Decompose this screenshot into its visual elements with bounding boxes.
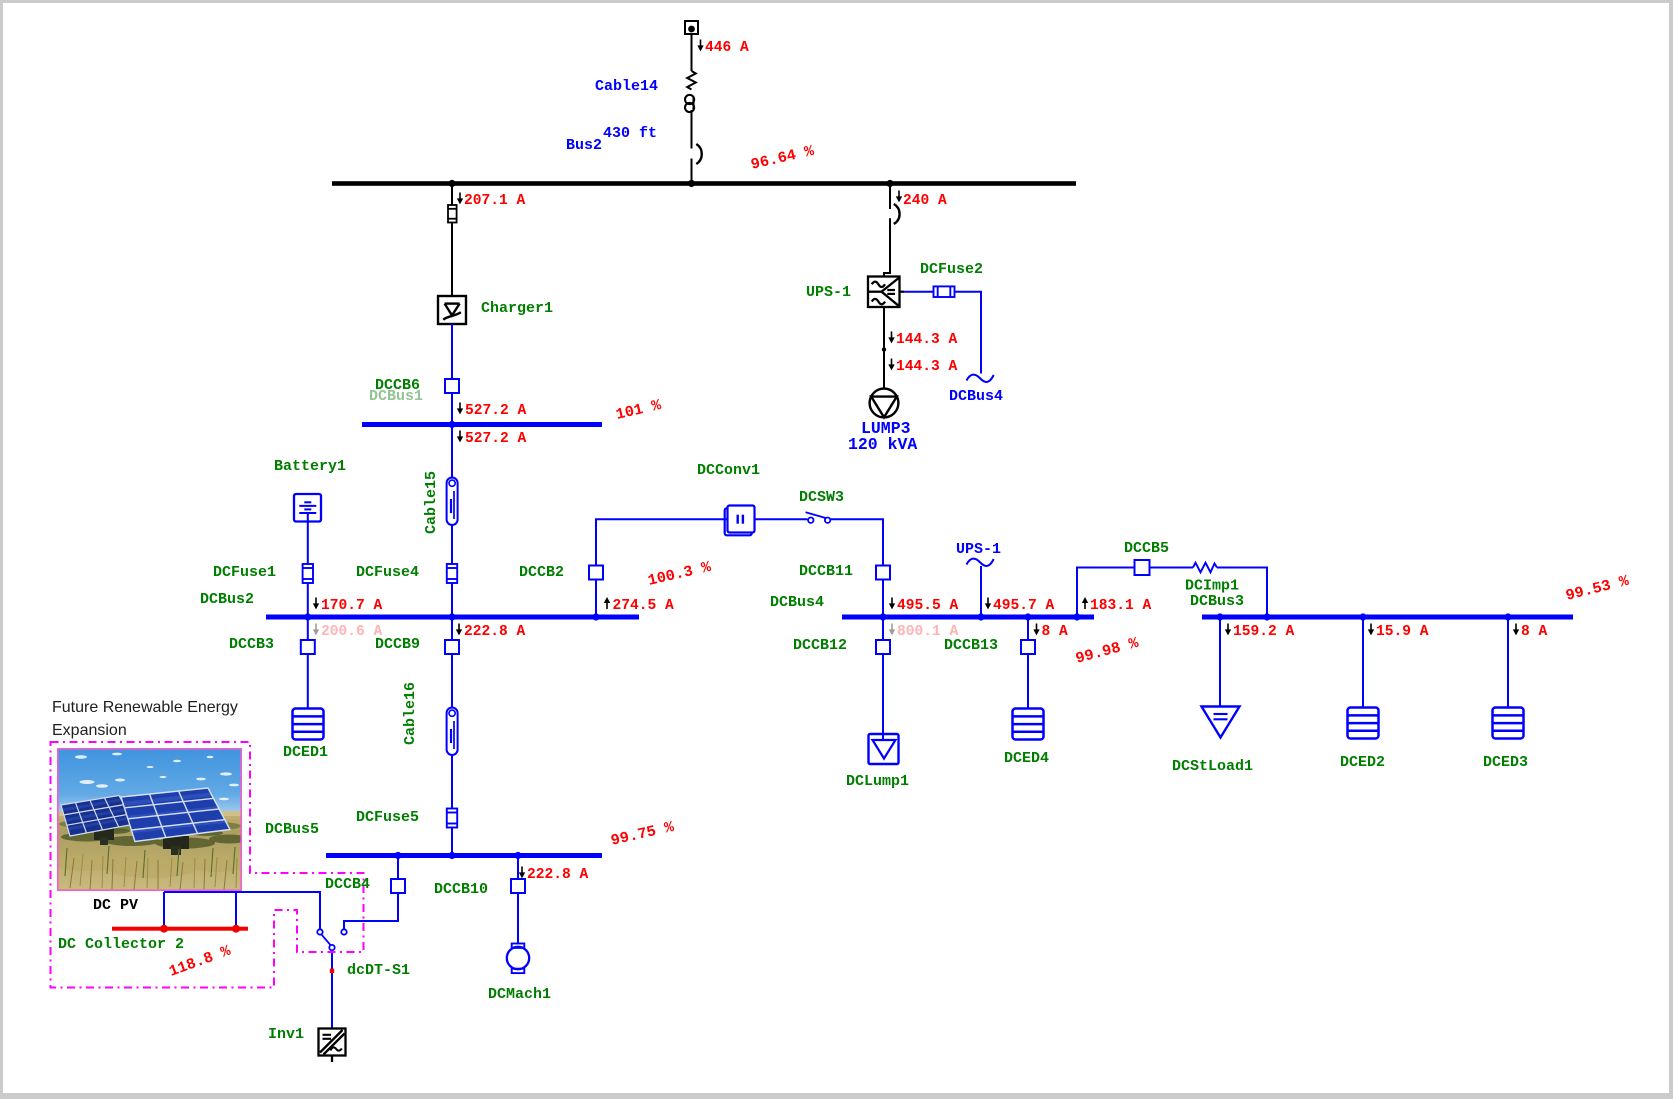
node DC Collector 2 tap2 [232, 925, 240, 933]
svg-text:DCLump1: DCLump1 [846, 773, 909, 790]
breaker DCCB3 [301, 640, 315, 654]
fault marker (red dot) [330, 969, 334, 973]
svg-text:DC PV: DC PV [93, 897, 138, 914]
wire DCBus3 to DCED2 [1362, 620, 1364, 708]
svg-text:Cable14: Cable14 [595, 78, 658, 95]
flow 159.2 A [1225, 624, 1231, 636]
svg-text:495.7 A: 495.7 A [993, 598, 1055, 614]
node DCBus3 at DCED2 [1359, 613, 1366, 620]
fuse DCFuse1 [303, 564, 313, 583]
svg-text:527.2 A: 527.2 A [465, 431, 527, 447]
wire Battery1 to DCFuse1 [307, 513, 309, 564]
node DCBus3 at DCStLoad1 [1216, 613, 1223, 620]
wire Charger1 to DCCB6 [451, 324, 453, 379]
node DCBus4 at DCCB5 riser [1073, 613, 1080, 620]
svg-text:DCStLoad1: DCStLoad1 [1172, 758, 1253, 775]
flow 495.7 A [985, 598, 991, 610]
bus Bus2 [332, 181, 1076, 186]
wire DCConv1 to DCSW3 [755, 518, 808, 520]
wire Cable16 to DCFuse5 [451, 755, 453, 809]
flow 200.6 A [313, 624, 319, 636]
wire Cable15 to DCFuse4 [451, 525, 453, 564]
svg-text:DCBus5: DCBus5 [265, 821, 319, 838]
wire PV to collector tap 1 [163, 892, 165, 927]
breaker DCCB4 [391, 879, 405, 893]
svg-text:UPS-1: UPS-1 [806, 284, 851, 301]
flow 15.9 A [1368, 624, 1374, 636]
PV array photo (DC PV) [53, 748, 252, 891]
load DCLump1 [869, 734, 899, 764]
cable Cable16 [447, 708, 458, 756]
breaker DCCB2 [589, 566, 603, 580]
node on Bus2 at UPS feeder [886, 180, 893, 187]
wire DCBus1 to Cable15 [451, 427, 453, 478]
lumped load LUMP3 [870, 389, 899, 418]
svg-text:144.3 A: 144.3 A [896, 359, 958, 375]
static load DCStLoad1 [1202, 707, 1240, 738]
svg-text:Bus2: Bus2 [566, 137, 602, 154]
svg-text:159.2 A: 159.2 A [1233, 624, 1295, 640]
node on Bus2 at Cable14 [688, 180, 695, 187]
flow 495.5 A [889, 598, 895, 610]
tie arc on Cable14 line [696, 144, 701, 164]
flow 527.2 A lower [457, 431, 463, 443]
flow 222.8 A [456, 624, 462, 636]
wire DCCB6 to DCBus1 [451, 393, 453, 422]
breaker DCCB11 [876, 566, 890, 580]
wire DCCB9 to Cable16 [451, 654, 453, 708]
svg-text:274.5 A: 274.5 A [613, 598, 675, 614]
svg-text:15.9 A: 15.9 A [1376, 624, 1429, 640]
svg-text:DCCB2: DCCB2 [519, 564, 564, 581]
svg-text:DCCB12: DCCB12 [793, 637, 847, 654]
svg-text:DCConv1: DCConv1 [697, 462, 760, 479]
bus DCBus1 [362, 422, 602, 427]
node DCBus4 at UPS ref [977, 613, 984, 620]
wire DCFuse4 to DCBus2 [451, 583, 453, 615]
node DCBus5 at DCCB10 [514, 852, 521, 859]
svg-text:DCBus2: DCBus2 [200, 591, 254, 608]
wire DCFuse2 to DCBus4 reference [955, 292, 982, 374]
breaker DCCB6 [445, 379, 459, 393]
bus DC Collector 2 (red) [112, 927, 248, 931]
wire DCCB4 to switch right pole [344, 893, 398, 929]
breaker DCCB10 [511, 879, 525, 893]
svg-text:DCBus1: DCBus1 [369, 388, 423, 405]
svg-text:DCED1: DCED1 [283, 744, 328, 761]
svg-text:Battery1: Battery1 [274, 458, 346, 475]
scrub band [59, 821, 241, 834]
svg-text:DCImp1: DCImp1 [1185, 578, 1239, 595]
node DCBus4 at DCCB13 [1024, 613, 1031, 620]
svg-text:DCFuse5: DCFuse5 [356, 809, 419, 826]
svg-text:222.8 A: 222.8 A [464, 624, 526, 640]
svg-text:200.6 A: 200.6 A [321, 624, 383, 640]
breaker DCCB12 [876, 640, 890, 654]
wire fuse to Charger1 [451, 223, 453, 297]
svg-text:DCCB5: DCCB5 [1124, 540, 1169, 557]
svg-text:DCBus3: DCBus3 [1190, 593, 1244, 610]
wire switch to Inv1 [331, 950, 333, 1028]
right PV array support [163, 836, 189, 849]
wire DCBus3 to DCED3 [1507, 620, 1509, 708]
load DCED3 [1493, 708, 1524, 739]
breaker DCCB9 [445, 640, 459, 654]
wire DCCB10 to DCMach1 [517, 893, 519, 944]
impedance DCImp1 (zigzag) [1193, 563, 1217, 573]
flow 446 A [697, 40, 703, 52]
flow 274.5 A [604, 597, 610, 609]
flow 183.1 A [1082, 597, 1088, 609]
breaker DCCB13 [1021, 640, 1035, 654]
svg-text:120 kVA: 120 kVA [848, 435, 917, 454]
switch DCSW3 [806, 512, 831, 523]
svg-text:DCCB3: DCCB3 [229, 636, 274, 653]
wire DCCB5 to DCImp1 [1150, 567, 1194, 569]
svg-text:DCCB10: DCCB10 [434, 881, 488, 898]
load DCED1 [293, 709, 324, 740]
wire DCBus5 to DCCB4 [397, 858, 399, 879]
wire DCFuse1 to DCBus2 [307, 583, 309, 615]
flow 8 A (DCED4) [1033, 624, 1039, 636]
wire DCBus4 to DCCB13 [1027, 620, 1029, 641]
flow 170.7 A [313, 598, 319, 610]
svg-text:dcDT-S1: dcDT-S1 [347, 962, 410, 979]
svg-text:Future Renewable Energy: Future Renewable Energy [52, 699, 238, 716]
svg-text:DCMach1: DCMach1 [488, 986, 551, 1003]
machine DCMach1 [507, 944, 529, 974]
cable C:Cable14 [685, 71, 696, 149]
remote bus marker DCBus4 (squiggle) [967, 375, 994, 382]
flow 222.8 A (DCBus5) [519, 867, 525, 879]
node DCBus2 center [448, 613, 455, 620]
svg-text:430 ft: 430 ft [603, 125, 657, 142]
left PV array support [94, 828, 114, 840]
future expansion dashed boundary [51, 742, 364, 988]
node DCBus2 right [592, 613, 599, 620]
node DC Collector 2 tap1 [160, 925, 168, 933]
svg-text:446 A: 446 A [705, 40, 749, 56]
flow 144.3 A lower [888, 359, 894, 371]
svg-text:Inv1: Inv1 [268, 1026, 304, 1043]
svg-text:DCFuse4: DCFuse4 [356, 564, 419, 581]
fuse (black) on charger feeder [448, 205, 457, 223]
svg-text:800.1 A: 800.1 A [897, 624, 959, 640]
svg-text:Expansion: Expansion [52, 722, 127, 739]
svg-text:170.7 A: 170.7 A [321, 598, 383, 614]
svg-text:DCBus4: DCBus4 [770, 594, 824, 611]
foreground grass [53, 855, 252, 878]
svg-text:240 A: 240 A [903, 193, 947, 209]
wire DCBus4 to DCCB5 [1077, 568, 1135, 615]
left PV array [61, 796, 135, 837]
svg-text:DCCB11: DCCB11 [799, 563, 853, 580]
fuse DCFuse2 [934, 286, 955, 297]
wire DCCB3 to DCED1 [307, 654, 309, 709]
wire UPS bottom to LUMP3 [883, 307, 885, 389]
converter DCConv1 [725, 506, 755, 536]
wire DCCB12 to DCLump1 [882, 654, 884, 740]
remote source marker UPS-1 (squiggle) [967, 559, 994, 566]
flow 8 A (DCED3) [1513, 624, 1519, 636]
bus DCBus5 [326, 853, 602, 858]
wire DCImp1 to DCBus3 [1217, 568, 1267, 615]
svg-text:DCSW3: DCSW3 [799, 489, 844, 506]
flow 240 A [896, 191, 902, 203]
svg-text:DCFuse2: DCFuse2 [920, 261, 983, 278]
wire DCBus4 to DCCB12 [882, 620, 884, 641]
fuse DCFuse5 [447, 809, 457, 828]
wire UPS to DCFuse2 (blue) [904, 291, 934, 293]
wire DCCB2 to DCConv1 [596, 519, 728, 565]
svg-text:DCBus4: DCBus4 [949, 388, 1003, 405]
wire DCSW3 to DCCB11 [830, 519, 883, 565]
flow 207.1 A [457, 193, 463, 205]
wire DCBus2 to DCCB3 [307, 620, 309, 641]
svg-text:183.1 A: 183.1 A [1090, 598, 1152, 614]
wire DCFuse5 to DCBus5 [451, 828, 453, 854]
right PV array [121, 788, 230, 842]
flow 527.2 A upper [457, 403, 463, 415]
utility U1 [685, 21, 698, 34]
node DCBus3 at DCED3 [1504, 613, 1511, 620]
svg-text:DC Collector 2: DC Collector 2 [58, 936, 184, 953]
node on Bus2 at Charger1 feeder [448, 180, 455, 187]
wire PV to collector tap 2 [235, 892, 237, 927]
fuse DCFuse4 [447, 564, 457, 583]
wire DCCB11 to DCBus4 [882, 580, 884, 615]
wire DCBus2 to DCCB9 [451, 620, 453, 641]
node DCBus4 at DCCB11 [879, 613, 886, 620]
load DCED4 [1013, 709, 1044, 740]
flow 144.3 A upper [888, 332, 894, 344]
node DCBus3 at riser [1263, 613, 1270, 620]
svg-text:DCED2: DCED2 [1340, 754, 1385, 771]
node DCBus5 at DCCB4 [394, 852, 401, 859]
tie arc on UPS feeder [894, 204, 900, 224]
svg-text:DCFuse1: DCFuse1 [213, 564, 276, 581]
svg-text:207.1 A: 207.1 A [464, 193, 526, 209]
breaker DCCB5 [1135, 560, 1150, 575]
wire arc to UPS-1 with jog [884, 218, 890, 276]
node DCBus2 battery [304, 613, 311, 620]
charger U:Charger1 [438, 296, 466, 324]
svg-text:495.5 A: 495.5 A [897, 598, 959, 614]
svg-text:DCED4: DCED4 [1004, 750, 1049, 767]
wire [691, 34, 693, 71]
junction node [882, 347, 886, 351]
svg-text:UPS-1: UPS-1 [956, 541, 1001, 558]
svg-text:Charger1: Charger1 [481, 300, 553, 317]
wire Bus2 to Fuse [451, 186, 453, 205]
flow 800.1 A [889, 624, 895, 636]
svg-text:8 A: 8 A [1521, 624, 1548, 640]
bus DCBus3 [1202, 615, 1573, 620]
stub UPS right [900, 291, 905, 293]
wire UPS-1 marker to DCBus4 [980, 566, 982, 615]
wire DCBus2 to DCCB2 [595, 580, 597, 615]
wire DCBus3 to DCStLoad1 [1219, 620, 1221, 707]
node DCBus5 at DCFuse5 [448, 852, 455, 859]
svg-text:527.2 A: 527.2 A [465, 403, 527, 419]
wire DCBus5 to DCCB10 [517, 858, 519, 879]
switch dcDT-S1 [317, 929, 346, 950]
wire [691, 159, 693, 182]
bus DCBus2 [266, 615, 639, 620]
wire PV to dcDT-S1 [164, 892, 320, 929]
svg-text:8 A: 8 A [1042, 624, 1069, 640]
bus DCBus4 [842, 615, 1094, 620]
load DCED2 [1348, 708, 1379, 739]
inverter Inv1 [319, 1029, 346, 1063]
node DCBus1 [448, 421, 455, 428]
svg-text:DCED3: DCED3 [1483, 754, 1528, 771]
svg-text:DCCB4: DCCB4 [325, 876, 370, 893]
UPS U:UPS-1 [868, 277, 900, 308]
wire Bus2 to arc (UPS feeder) [889, 186, 891, 209]
cable Cable15 [447, 478, 458, 526]
svg-text:222.8 A: 222.8 A [527, 867, 589, 883]
svg-text:Cable15: Cable15 [423, 471, 440, 534]
svg-text:144.3 A: 144.3 A [896, 332, 958, 348]
battery Battery1 [294, 494, 321, 522]
svg-text:Cable16: Cable16 [402, 682, 419, 745]
wire DCCB13 to DCED4 [1027, 654, 1029, 709]
